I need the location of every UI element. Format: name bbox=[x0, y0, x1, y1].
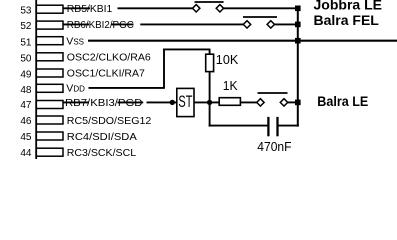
pin 48 box bbox=[36, 84, 63, 92]
wire Vss rail bbox=[88, 40, 397, 42]
wire PGD strike bbox=[118, 101, 144, 103]
svg-text:48: 48 bbox=[20, 85, 32, 96]
pin 47 box bbox=[36, 101, 63, 109]
junction node at ST input bbox=[170, 100, 175, 105]
pin 44 box bbox=[36, 148, 63, 156]
wire pin47 to ST input bbox=[147, 101, 177, 103]
svg-text:RB7/KBI3/PGD: RB7/KBI3/PGD bbox=[65, 97, 143, 109]
switch SW2 lever bar bbox=[243, 16, 277, 18]
svg-text:45: 45 bbox=[20, 132, 32, 143]
wire capacitor branch bottom left bbox=[209, 125, 269, 127]
resistor R1 10K body bbox=[206, 54, 214, 71]
wire switch SW3 to bus bbox=[288, 101, 298, 103]
svg-text:ST: ST bbox=[178, 92, 192, 111]
svg-text:10K: 10K bbox=[216, 52, 239, 67]
switch SW2 contact 1 bbox=[243, 21, 250, 28]
capacitor C1 right plate bbox=[276, 117, 278, 136]
svg-text:OSC2/CLKO/RA6: OSC2/CLKO/RA6 bbox=[67, 52, 151, 64]
svg-text:RB6/KBI2/PGC: RB6/KBI2/PGC bbox=[67, 19, 134, 31]
wire capacitor branch down bbox=[209, 102, 211, 126]
wire RB6 strike (pin 52 net stub) bbox=[63, 23, 89, 25]
pin 52 box bbox=[36, 21, 63, 29]
svg-text:44: 44 bbox=[20, 148, 32, 159]
pin 50 box bbox=[36, 53, 63, 61]
svg-text:47: 47 bbox=[20, 100, 32, 111]
svg-text:49: 49 bbox=[20, 70, 32, 81]
svg-text:Balra FEL: Balra FEL bbox=[314, 12, 380, 28]
wire RB7 strike (pin 47 net stub) bbox=[63, 101, 89, 103]
pin 53 box bbox=[36, 5, 63, 13]
capacitor C1 left plate bbox=[267, 117, 269, 136]
resistor R2 1K body bbox=[219, 98, 240, 106]
svg-text:470nF: 470nF bbox=[257, 139, 291, 154]
wire ST output to node bbox=[194, 101, 219, 103]
junction dot bus row52 bbox=[295, 22, 301, 28]
schmitt trigger U1 box bbox=[177, 88, 194, 116]
wire Vdd riser bbox=[163, 49, 165, 88]
svg-text:Jobbra LE: Jobbra LE bbox=[314, 0, 382, 12]
pin 46 box bbox=[36, 116, 63, 124]
pin 45 box bbox=[36, 132, 63, 140]
wire R1 bottom to node bbox=[209, 72, 211, 103]
junction node R1/C1/R2 bbox=[207, 100, 212, 105]
svg-text:Balra LE: Balra LE bbox=[317, 93, 368, 109]
wire PGC strike bbox=[111, 23, 134, 25]
switch SW2 contact 2 bbox=[267, 21, 274, 28]
svg-text:1K: 1K bbox=[223, 78, 238, 93]
svg-text:OSC1/CLKI/RA7: OSC1/CLKI/RA7 bbox=[67, 67, 145, 79]
svg-text:46: 46 bbox=[20, 116, 32, 127]
chip body edge (IC left boundary) bbox=[35, 0, 37, 159]
svg-text:RB5/KBI1: RB5/KBI1 bbox=[67, 3, 113, 15]
switch SW3 contact 2 bbox=[280, 99, 287, 106]
wire Vdd into resistor R1 bbox=[209, 49, 211, 54]
wire capacitor to bus bbox=[278, 125, 299, 127]
svg-text:50: 50 bbox=[20, 54, 32, 65]
wire pin52 to switch bbox=[140, 23, 243, 25]
svg-text:52: 52 bbox=[20, 21, 32, 32]
svg-text:VDD: VDD bbox=[66, 83, 85, 95]
junction dot bus row47 bbox=[295, 100, 301, 106]
pin 51 box bbox=[36, 37, 63, 45]
switch SW3 contact 1 bbox=[257, 99, 264, 106]
junction dot bus row53 bbox=[295, 6, 301, 12]
wire Vdd top horizontal bbox=[163, 48, 210, 50]
svg-text:51: 51 bbox=[20, 38, 32, 49]
bus vertical line bbox=[297, 8, 299, 126]
wire switch SW1 to bus bbox=[223, 7, 297, 9]
svg-text:RC5/SDO/SEG12: RC5/SDO/SEG12 bbox=[67, 115, 152, 127]
switch SW1 lever bar bbox=[195, 1, 224, 3]
wire RB5 strike (pin 53 net stub) bbox=[63, 7, 90, 9]
switch SW3 lever bar bbox=[258, 92, 288, 94]
svg-text:RC3/SCK/SCL: RC3/SCK/SCL bbox=[67, 147, 136, 159]
wire R2 to switch SW3 bbox=[240, 101, 257, 103]
wire pin53 to switch bbox=[118, 7, 193, 9]
wire Vdd from pin 48 bbox=[89, 87, 165, 89]
switch SW1 contact 2 bbox=[216, 5, 223, 12]
junction dot bus Vss bbox=[295, 38, 301, 44]
svg-text:VSS: VSS bbox=[66, 36, 84, 48]
svg-text:53: 53 bbox=[20, 6, 32, 17]
wire switch SW2 to bus bbox=[274, 23, 297, 25]
pin 49 box bbox=[36, 69, 63, 77]
switch SW1 contact 1 bbox=[193, 5, 200, 12]
svg-text:RC4/SDI/SDA: RC4/SDI/SDA bbox=[67, 131, 137, 143]
